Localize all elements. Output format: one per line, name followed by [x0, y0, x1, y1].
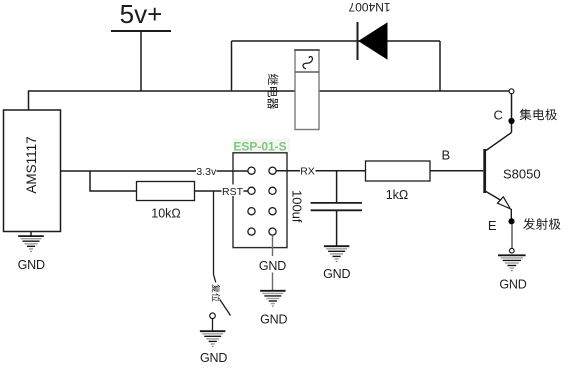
terminal emitter ground — [510, 248, 515, 253]
wire relay loop right — [439, 41, 441, 91]
ground capacitor — [323, 246, 350, 281]
svg-text:GND: GND — [200, 351, 227, 365]
switch S1 terminal — [210, 313, 216, 319]
wire 10k to RST — [195, 190, 223, 192]
wire 1k to base — [430, 170, 483, 172]
svg-text:ESP-01-S: ESP-01-S — [233, 139, 286, 153]
wire RX to resistor — [316, 170, 366, 172]
ground switch — [200, 331, 227, 365]
ground emitter — [498, 255, 527, 291]
module U1 pins — [248, 167, 276, 235]
module U1 ESP-01-S body — [233, 153, 287, 248]
label 集电极 (collector) — [520, 109, 557, 121]
wire relay loop top — [232, 40, 441, 42]
wire RX from ESP — [276, 170, 300, 172]
svg-text:1N4007: 1N4007 — [348, 0, 390, 14]
terminal bus connection — [509, 89, 514, 94]
wire RX junction to capacitor — [336, 171, 338, 202]
regulator U2 AMS1117 — [4, 110, 61, 232]
switch S1 reset lever — [220, 300, 231, 316]
label 发射极 (emitter) — [523, 218, 560, 230]
svg-text:AMS1117: AMS1117 — [24, 136, 39, 193]
ground AMS1117 — [18, 236, 45, 272]
wire AMS1117 to ground — [30, 232, 32, 237]
svg-text:C: C — [494, 107, 503, 122]
wire ESP GND pin down — [272, 235, 274, 256]
svg-text:GND: GND — [18, 258, 45, 272]
transistor Q1 S8050 — [485, 133, 541, 219]
resistor R2 1k — [366, 161, 431, 202]
svg-text:E: E — [488, 218, 497, 233]
label RST — [222, 185, 244, 199]
svg-text:B: B — [441, 148, 450, 163]
capacitor C1 100uf — [289, 190, 362, 223]
svg-text:S8050: S8050 — [503, 167, 541, 182]
svg-text:GND: GND — [260, 312, 287, 326]
wire to ground — [272, 273, 274, 292]
svg-text:1kΩ: 1kΩ — [386, 188, 409, 202]
wire relay loop left — [231, 41, 233, 91]
wire switch to ground — [212, 319, 214, 331]
wire branch down to 10k — [90, 171, 137, 191]
label 复位 (reset) vertical — [212, 284, 220, 301]
wire capacitor to ground — [336, 211, 338, 246]
svg-text:GND: GND — [259, 259, 286, 273]
wire 5v bus — [29, 91, 510, 110]
svg-text:3.3v: 3.3v — [196, 166, 217, 178]
power rail 5v+ — [111, 0, 171, 31]
wire 3.3v to ESP pin — [217, 170, 249, 172]
svg-text:100uf: 100uf — [289, 190, 304, 223]
diode D1 1N4007 — [348, 0, 390, 60]
wire RST to switch — [214, 191, 216, 283]
wire collector up — [511, 93, 513, 132]
wire 3.3v from AMS1117 — [61, 170, 197, 172]
resistor R1 10k — [137, 182, 195, 221]
ground ESP — [260, 291, 287, 327]
label 继电器 (relay) vertical — [267, 74, 278, 109]
module U1 ESP-01-S label background — [233, 139, 290, 153]
node E emitter dot — [508, 218, 514, 224]
node C collector dot — [508, 118, 514, 124]
wire emitter to ground — [511, 224, 513, 248]
svg-text:RX: RX — [300, 166, 315, 178]
wire RST to ESP pin — [244, 190, 249, 192]
svg-text:GND: GND — [323, 267, 350, 281]
svg-text:GND: GND — [499, 278, 526, 292]
relay K1 — [294, 50, 319, 130]
svg-text:5v+: 5v+ — [120, 0, 163, 29]
svg-text:10kΩ: 10kΩ — [151, 207, 181, 221]
svg-text:RST: RST — [222, 186, 244, 198]
wire 5v+ to bus — [140, 31, 142, 91]
